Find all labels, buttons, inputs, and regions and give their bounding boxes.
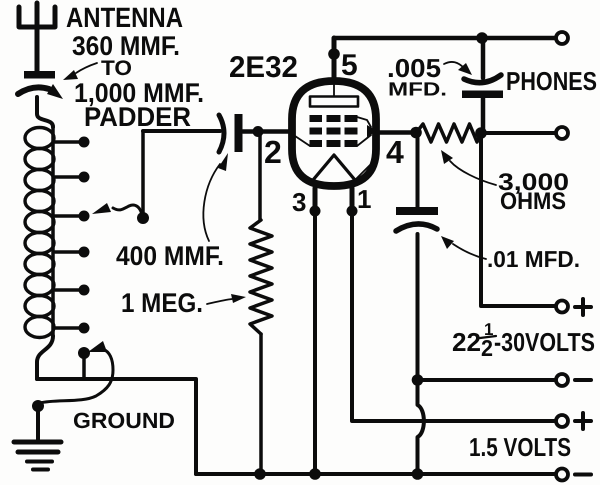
coil ground tap stub: [78, 347, 90, 379]
svg-text:.01 MFD.: .01 MFD.: [487, 246, 580, 272]
resistor R1 1 MEG: [250, 131, 272, 474]
svg-text:PHONES: PHONES: [506, 66, 597, 96]
label 3,000 OHMS: [498, 169, 569, 215]
coil L1: [25, 126, 54, 338]
svg-text:PADDER: PADDER: [84, 102, 191, 132]
arrow from 1 MEG. to resistor: [207, 294, 246, 304]
wire pin 3 to bottom rail: [313, 214, 317, 474]
pin 3 lead: [310, 188, 321, 217]
svg-text:400 MMF.: 400 MMF.: [116, 241, 224, 271]
resistor R2 3,000 ohms: [416, 124, 481, 142]
wire B+ drop: [481, 133, 555, 306]
wavy ground selector wire (lower): [40, 341, 113, 403]
minus sign B-: [575, 378, 591, 382]
fraction bar of 1/2: [480, 336, 496, 338]
pin 2 internal lead: [295, 136, 310, 146]
plus sign B+: [575, 299, 591, 315]
arrow from 3,000 OHMS to resistor: [441, 150, 496, 185]
coil bottom wire: [37, 336, 53, 379]
terminal B minus: [556, 374, 568, 386]
ground lead: [32, 400, 44, 440]
ground symbol: [14, 442, 61, 470]
svg-text:TO: TO: [101, 57, 132, 80]
arrow from TO to padder: [63, 63, 97, 80]
terminal A minus: [556, 469, 568, 481]
svg-text:2: 2: [264, 134, 282, 170]
capacitor C3 .005 MFD: [462, 38, 503, 131]
grid dashes: [310, 115, 358, 147]
label 360 MMF. TO 1,000 MMF. PADDER: [72, 31, 204, 132]
terminal phones bottom: [556, 127, 568, 139]
svg-text:1: 1: [357, 184, 371, 214]
wavy tap selector wire (upper): [92, 203, 142, 216]
feed wire to grid cap: [137, 131, 220, 224]
wire bottom rail: [196, 472, 555, 476]
filament V: [313, 155, 355, 180]
wire left rail: [37, 379, 196, 474]
svg-text:2: 2: [481, 335, 493, 361]
coil tap dots: [79, 137, 90, 334]
grid internal connector with arrow to pin 4: [357, 117, 377, 146]
tube envelope: [292, 81, 376, 186]
svg-text:22: 22: [452, 327, 481, 357]
svg-text:4: 4: [386, 134, 404, 170]
pin 1 lead: [347, 188, 358, 217]
wire minus row: [418, 378, 556, 382]
svg-text:2E32: 2E32: [229, 51, 298, 84]
node resistor right junction: [475, 127, 487, 139]
svg-text:5: 5: [341, 49, 358, 82]
terminal A+: [556, 415, 568, 427]
node bottom rail junctions: [254, 468, 423, 480]
plus sign A+: [575, 413, 591, 429]
coil taps: [55, 142, 80, 328]
svg-text:OHMS: OHMS: [500, 188, 566, 215]
terminal phones top: [556, 32, 568, 44]
svg-text:1 MEG.: 1 MEG.: [121, 288, 203, 318]
top rail wire: [334, 36, 555, 41]
svg-text:ANTENNA: ANTENNA: [66, 2, 183, 33]
svg-text:1.5 VOLTS: 1.5 VOLTS: [469, 432, 571, 462]
minus sign A-: [575, 473, 591, 477]
wire tube pin 4: [378, 130, 416, 135]
svg-text:-30VOLTS: -30VOLTS: [494, 327, 595, 357]
arrow from 400 MMF. to capacitor: [203, 153, 228, 241]
label 22 1/2 - 30 VOLTS: [452, 320, 595, 361]
node minus row junction: [412, 374, 424, 386]
antenna: [19, 3, 55, 71]
node pin4 junction: [410, 127, 422, 139]
svg-text:.005: .005: [387, 53, 441, 83]
capacitor C2 400 MMF: [219, 114, 243, 152]
plate (anode): [310, 97, 358, 107]
wire phones lower row: [481, 131, 555, 135]
wire padder to coil top: [37, 97, 53, 127]
pin 5 wire: [328, 38, 357, 82]
node top rail junction: [476, 32, 488, 44]
wire cap to tube pin 2: [243, 129, 292, 134]
capacitor C4 .01 MFD: [396, 132, 438, 474]
internal lead right side: [355, 161, 374, 180]
svg-text:GROUND: GROUND: [73, 408, 175, 433]
label .005 MFD.: [387, 53, 447, 101]
svg-text:MFD.: MFD.: [388, 80, 447, 101]
wire pin 1 to plus terminal: [352, 214, 555, 421]
terminal B+: [556, 301, 568, 313]
pin number labels 2, 4, 3, 1: [264, 134, 404, 217]
arrow from .005 to capacitor: [444, 62, 472, 75]
capacitor padder (360-1000 MMF): [18, 71, 63, 99]
node junction at grid resistor: [253, 126, 264, 137]
arrow from .01 MFD. to capacitor: [441, 236, 486, 259]
plate lead: [333, 85, 335, 97]
svg-text:3: 3: [292, 187, 306, 217]
